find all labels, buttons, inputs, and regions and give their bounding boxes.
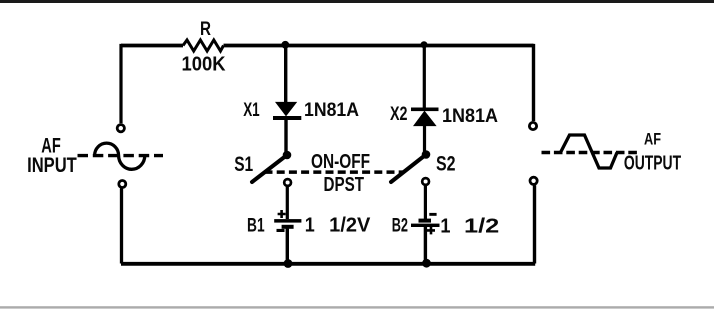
svg-text:AF: AF [644, 130, 661, 149]
svg-text:1/2: 1/2 [464, 216, 499, 238]
svg-text:1N81A: 1N81A [304, 100, 359, 121]
terminal AF output bottom [530, 177, 537, 184]
AF input sine waveform [95, 143, 145, 169]
ganged linkage dashed line [265, 170, 405, 174]
svg-text:X1: X1 [243, 100, 260, 121]
input signal baseline (dashed) [78, 154, 164, 157]
wire top rail left segment [121, 44, 183, 48]
switch S1 [252, 151, 291, 182]
wire B1 to bottom rail [286, 228, 289, 264]
svg-text:B2: B2 [392, 216, 408, 237]
battery B1 [274, 210, 301, 232]
wire S1 contact to B1 [286, 187, 289, 219]
svg-text:1N81A: 1N81A [442, 106, 498, 127]
svg-text:INPUT: INPUT [27, 154, 77, 177]
output signal baseline (dashed) [542, 151, 638, 154]
terminal AF output top [529, 122, 536, 129]
svg-text:1/2V: 1/2V [329, 215, 371, 237]
wire S2 contact to B2 [424, 186, 427, 219]
svg-text:S2: S2 [436, 152, 456, 175]
svg-text:ON-OFF: ON-OFF [311, 151, 370, 173]
terminal S2 lower contact [422, 178, 429, 185]
wire top rail right segment [224, 44, 534, 48]
value label 1 1/2V for B1 [305, 215, 371, 237]
diode X1 [273, 102, 301, 120]
wire bottom rail [121, 262, 535, 266]
switch S2 [391, 150, 430, 182]
junction at B1 bottom [284, 259, 293, 268]
svg-text:S1: S1 [234, 153, 253, 176]
svg-text:OUTPUT: OUTPUT [624, 153, 681, 175]
resistor R [183, 40, 224, 51]
wire X2 to S2 [423, 125, 426, 155]
svg-text:B1: B1 [247, 215, 265, 236]
wire X1 branch from top rail [284, 46, 287, 104]
wire left input drop [119, 44, 122, 123]
value label 1 1/2 for B2 [440, 216, 499, 238]
wire X2 branch from top rail [423, 46, 426, 109]
wire input bottom to ground rail [120, 189, 123, 264]
terminal AF input bottom [119, 181, 126, 188]
label AF OUTPUT [624, 130, 681, 175]
svg-text:X2: X2 [390, 104, 408, 125]
svg-text:R: R [200, 19, 211, 40]
svg-text:DPST: DPST [324, 173, 365, 196]
wire output bottom to bottom rail [533, 185, 536, 263]
svg-text:1: 1 [305, 215, 315, 237]
wire B2 to bottom rail [424, 227, 427, 264]
terminal AF input top [117, 125, 124, 132]
label AF INPUT [27, 134, 77, 177]
junction at B2 bottom [422, 259, 431, 268]
diode X2 [411, 108, 439, 126]
junction at X1 top [281, 41, 289, 49]
wire X1 to S1 [284, 119, 287, 155]
wire right output drop from top rail [532, 44, 535, 121]
AF output clipped waveform [561, 135, 618, 168]
svg-text:100K: 100K [182, 53, 227, 75]
battery B2 [411, 213, 440, 235]
junction at X2 top [421, 41, 428, 48]
svg-text:1: 1 [440, 216, 450, 238]
terminal S1 lower contact [284, 179, 291, 186]
